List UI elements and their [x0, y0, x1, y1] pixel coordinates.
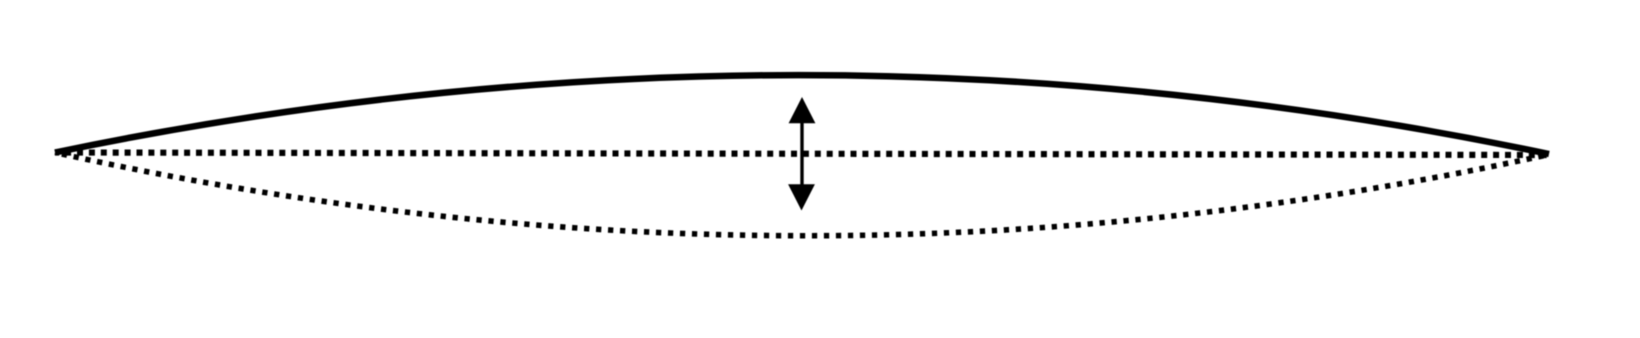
dotted straight line (string rest position) [55, 153, 1549, 156]
double-headed arrow shaft [800, 119, 803, 187]
double-headed arrow top head [789, 97, 816, 123]
solid upper arc (string displaced up) [55, 75, 1549, 154]
double-headed arrow bottom head [788, 184, 815, 210]
dotted lower arc (string displaced down) [55, 153, 1549, 236]
